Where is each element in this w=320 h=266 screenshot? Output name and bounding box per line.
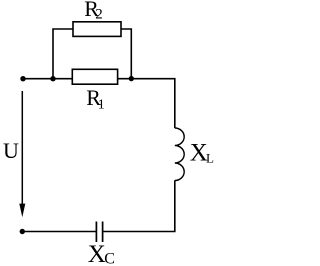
wire: capacitor left plate to bottom-left dot bbox=[22, 231, 96, 233]
svg-text:L: L bbox=[206, 150, 214, 165]
wire: R2 right side down to main wire bbox=[121, 29, 131, 79]
wire: below coil to bottom-right corner to capacitor right plate bbox=[103, 180, 175, 231]
junction: right branch node bbox=[129, 76, 134, 81]
wire: left dot to R1 left bbox=[23, 78, 72, 80]
voltage arrow U head bbox=[19, 204, 25, 218]
svg-text:U: U bbox=[3, 138, 19, 163]
wire: branch up to R2 (left side) bbox=[53, 29, 73, 79]
voltage arrow U line bbox=[21, 91, 23, 206]
svg-text:1: 1 bbox=[98, 97, 105, 112]
svg-text:X: X bbox=[88, 241, 106, 266]
svg-text:2: 2 bbox=[95, 7, 103, 23]
svg-text:C: C bbox=[104, 251, 115, 266]
resistor R1 bbox=[72, 69, 117, 84]
node: top-left terminal dot bbox=[20, 76, 25, 81]
inductor XL bbox=[175, 128, 184, 181]
wire: R1 right to top-right corner and down to coil bbox=[118, 79, 175, 128]
resistor R2 bbox=[73, 22, 121, 37]
junction: left branch node bbox=[50, 76, 55, 81]
capacitor XC bbox=[96, 222, 102, 243]
node: bottom-left terminal dot bbox=[20, 229, 25, 234]
